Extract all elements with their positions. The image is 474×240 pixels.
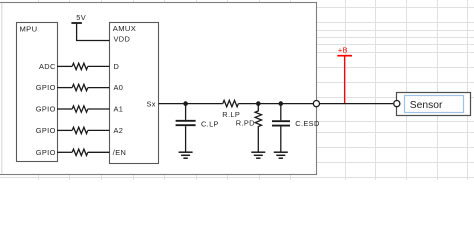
svg-text:GPIO: GPIO: [36, 148, 56, 157]
capacitor C.ESD: [272, 104, 290, 152]
svg-text:C.ESD: C.ESD: [295, 119, 319, 128]
svg-text:GPIO: GPIO: [36, 83, 56, 92]
ground (C.ESD): [274, 152, 288, 158]
wire boundary connector to sensor connector: [316, 103, 393, 105]
module boundary rectangle: [0, 3, 317, 175]
series resistor (GPIO to A2): [72, 127, 88, 133]
wire to AMUX /EN: [88, 151, 110, 153]
svg-text:Sx: Sx: [146, 100, 155, 109]
series resistor (GPIO to A1): [72, 106, 88, 112]
junction node (R.PD tap): [256, 101, 261, 106]
svg-text:D: D: [114, 62, 120, 71]
junction node (C.LP tap): [183, 101, 188, 106]
capacitor C.LP: [176, 104, 196, 152]
series resistor (ADC to D): [72, 63, 88, 69]
svg-text:5V: 5V: [76, 13, 86, 22]
svg-text:A1: A1: [114, 105, 124, 114]
svg-text:/EN: /EN: [113, 148, 126, 157]
wire GPIO2 lead: [57, 108, 72, 110]
wire to AMUX A0: [88, 87, 110, 89]
junction node (C.ESD tap): [279, 101, 284, 106]
wire GPIO1 lead: [57, 87, 72, 89]
svg-text:VDD: VDD: [114, 35, 131, 44]
svg-text:A0: A0: [114, 83, 124, 92]
wire to AMUX A2: [88, 129, 110, 131]
svg-text:Sensor: Sensor: [410, 100, 443, 111]
wire to AMUX D: [88, 65, 110, 67]
series resistor (GPIO to A0): [72, 84, 88, 90]
series resistor (GPIO to /EN): [72, 149, 88, 155]
resistor R.LP: [223, 100, 239, 106]
svg-text:MPU: MPU: [20, 24, 38, 33]
svg-text:C.LP: C.LP: [201, 119, 219, 128]
resistor R.PD (vertical): [255, 104, 261, 152]
Sensor block: [397, 93, 471, 116]
wire R.LP to boundary connector: [238, 103, 316, 105]
AMUX block: [110, 23, 159, 164]
svg-text:ADC: ADC: [39, 62, 56, 71]
wire ADC lead: [57, 65, 72, 67]
wire Sx net (AMUX output to R.LP): [159, 103, 223, 105]
+B supply wire (red): [344, 57, 346, 104]
svg-text:R.PD: R.PD: [236, 118, 255, 127]
wire GPIO3 lead: [57, 129, 72, 131]
MPU block: [17, 23, 58, 162]
open connector node (sensor input): [394, 101, 400, 107]
svg-text:+B: +B: [338, 45, 348, 54]
wire to AMUX A1: [88, 108, 110, 110]
svg-text:GPIO: GPIO: [36, 126, 56, 135]
+B supply bar (red): [337, 55, 352, 57]
svg-text:AMUX: AMUX: [113, 24, 136, 33]
ground (R.PD): [251, 152, 265, 158]
svg-text:A2: A2: [114, 126, 124, 135]
open connector node (module boundary): [313, 101, 319, 107]
svg-text:GPIO: GPIO: [36, 105, 56, 114]
wire GPIO4 lead: [57, 151, 72, 153]
5V supply symbol: [71, 23, 109, 41]
ground (C.LP): [179, 152, 193, 158]
